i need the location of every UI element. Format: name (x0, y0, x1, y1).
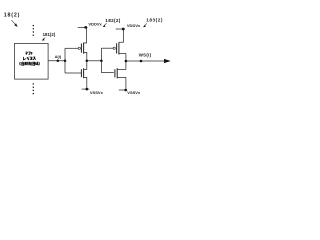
svg-text:183(2): 183(2) (146, 18, 163, 23)
svg-text:VSSVx: VSSVx (127, 90, 141, 95)
svg-text:181(2): 181(2) (43, 32, 56, 37)
svg-text:182(2): 182(2) (105, 18, 120, 23)
svg-text:VSSVx: VSSVx (90, 90, 104, 95)
svg-text:VDDVx: VDDVx (127, 23, 141, 28)
svg-text:A(i): A(i) (55, 54, 62, 59)
svg-text:VDDVx: VDDVx (88, 21, 102, 26)
svg-text:18(2): 18(2) (4, 12, 20, 18)
svg-text:WS(i): WS(i) (139, 52, 152, 57)
